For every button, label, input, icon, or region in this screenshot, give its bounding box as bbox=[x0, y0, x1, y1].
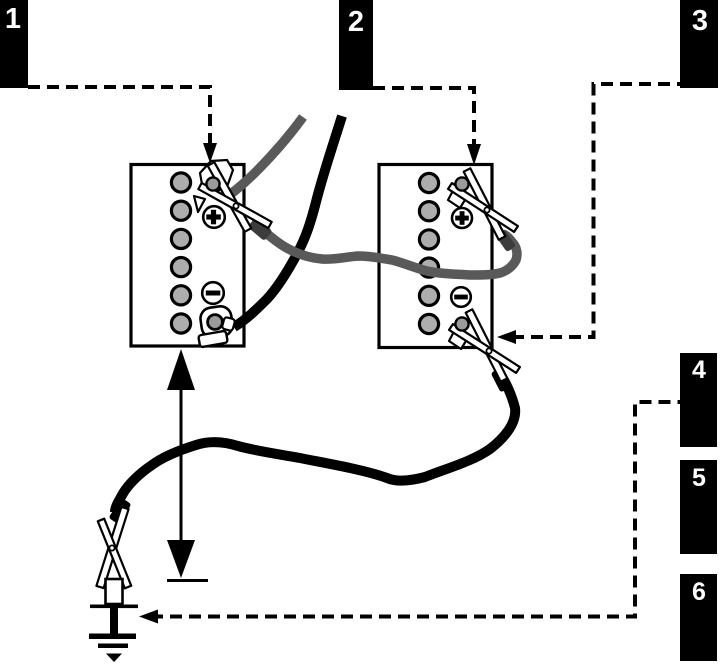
right battery cell cap 3 bbox=[419, 230, 438, 249]
arrowhead of leader 3 (pointing left) bbox=[497, 330, 516, 344]
arrowhead of leader 4 (pointing left) bbox=[139, 610, 158, 624]
black cable wrap at ground clamp handle bbox=[108, 498, 131, 525]
callout box 6 bbox=[680, 574, 717, 661]
callout box 2 bbox=[339, 0, 373, 90]
callout box 4 bbox=[680, 353, 717, 447]
svg-text:2: 2 bbox=[348, 6, 364, 38]
left battery negative terminal post bbox=[208, 315, 223, 330]
arrowhead of leader 1 (pointing down) bbox=[203, 143, 217, 163]
right battery cell cap 6 bbox=[419, 314, 438, 333]
left battery cell cap 5 bbox=[171, 286, 190, 305]
ground clamp (alligator clip, jaws down) bbox=[96, 507, 131, 588]
right battery negative terminal clamp (alligator clip) bbox=[449, 309, 520, 381]
right battery positive terminal clamp (alligator clip) bbox=[448, 168, 518, 239]
double-headed distance arrow between battery and ground bbox=[167, 349, 208, 582]
left battery cell cap 3 bbox=[171, 229, 190, 248]
dashed leader from box 4 to ground point bbox=[156, 402, 680, 617]
left battery cell cap 4 bbox=[171, 258, 190, 277]
left battery positive terminal clamp (alligator clip) bbox=[194, 160, 272, 232]
black cable from engine block (top) to left battery negative terminal bbox=[234, 116, 342, 327]
svg-text:5: 5 bbox=[692, 464, 706, 492]
ground symbol bar 2 bbox=[98, 644, 128, 649]
left battery cell cap 6 bbox=[171, 314, 190, 333]
gray positive jumper cable upper segment (slack over left battery plus clamp) bbox=[222, 117, 303, 200]
right battery case bbox=[379, 165, 492, 348]
callout box 5 bbox=[680, 460, 717, 554]
right battery cell cap 5 bbox=[419, 286, 438, 305]
ground symbol stem bbox=[110, 608, 118, 637]
right battery plus symbol bbox=[452, 208, 472, 228]
svg-text:3: 3 bbox=[692, 5, 708, 37]
svg-text:1: 1 bbox=[5, 3, 21, 35]
right battery cell cap 1 bbox=[419, 173, 438, 192]
left battery minus symbol bbox=[202, 282, 224, 304]
ground symbol top bar bbox=[90, 605, 138, 609]
gray positive jumper cable run (left clamp to right battery plus clamp) bbox=[254, 223, 517, 275]
right battery minus symbol bbox=[451, 287, 471, 307]
ground symbol bar 1 bbox=[89, 634, 136, 640]
gray cable wrap at left positive clamp handle bbox=[247, 217, 272, 241]
right battery cell cap 4 bbox=[419, 258, 438, 277]
svg-text:6: 6 bbox=[692, 578, 706, 606]
gray cable wrap at right positive clamp handle bbox=[495, 229, 516, 253]
black jumper cable from right battery negative clamp to ground clamp bbox=[115, 374, 515, 512]
arrowhead of leader 2 (pointing down) bbox=[467, 144, 481, 165]
left battery case bbox=[131, 165, 244, 347]
callout box 1 bbox=[0, 0, 28, 88]
left battery cell cap 2 bbox=[171, 201, 190, 220]
left battery negative terminal clamp body bbox=[198, 305, 235, 347]
grounding post gripped by clamp bbox=[106, 579, 123, 604]
base line under bottom arrowhead bbox=[167, 579, 208, 582]
svg-text:4: 4 bbox=[692, 356, 706, 384]
dashed leader from box 1 to left battery positive clamp bbox=[28, 87, 210, 146]
left battery cell cap 1 bbox=[171, 173, 190, 192]
right battery cell cap 2 bbox=[419, 202, 438, 221]
left battery plus symbol bbox=[203, 206, 225, 228]
ground symbol tip triangle bbox=[106, 654, 122, 663]
dashed leader from box 3 to right battery negative clamp bbox=[512, 84, 680, 337]
dashed leader from box 2 to right battery positive clamp bbox=[373, 88, 474, 146]
callout box 3 bbox=[680, 0, 718, 88]
black cable wrap at right negative clamp handle bbox=[491, 367, 512, 392]
